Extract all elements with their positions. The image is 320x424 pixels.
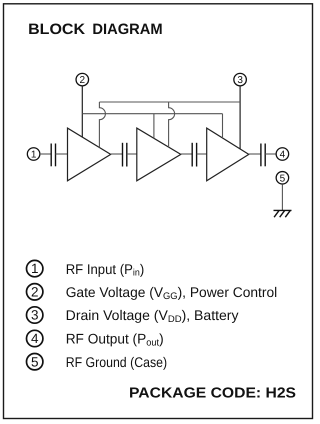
node 2 terminal circle xyxy=(76,73,89,86)
svg-text:3: 3 xyxy=(31,308,39,323)
node 4 terminal circle xyxy=(276,148,289,161)
node 3 terminal circle xyxy=(234,73,247,86)
svg-text:3: 3 xyxy=(237,75,243,86)
node 5 terminal circle xyxy=(276,172,289,185)
svg-text:4: 4 xyxy=(31,331,39,346)
svg-text:BLOCK: BLOCK xyxy=(28,21,85,38)
svg-text:DIAGRAM: DIAGRAM xyxy=(92,21,162,38)
wire C3 to amp3 xyxy=(197,153,207,155)
capacitor C2 xyxy=(123,143,127,167)
gate bus wire xyxy=(82,113,222,115)
wire amp1 to C2 xyxy=(111,153,123,155)
amplifier stage 1 xyxy=(68,128,111,181)
svg-text:PACKAGE CODE: H2S: PACKAGE CODE: H2S xyxy=(129,386,296,402)
wire C4 to node 4 xyxy=(265,153,276,155)
wire gate tap to amp3 xyxy=(222,114,224,138)
svg-text:2: 2 xyxy=(80,75,86,86)
amplifier stage 2 xyxy=(137,128,181,181)
wire node5 to ground xyxy=(281,185,283,211)
wire drain tap to amp2 with hop over gate bus xyxy=(169,102,175,147)
wire gate tap to amp2 xyxy=(153,114,155,139)
capacitor C4 xyxy=(261,144,265,167)
node 1 terminal circle xyxy=(27,148,40,161)
svg-text:5: 5 xyxy=(280,173,286,184)
capacitor C3 xyxy=(192,143,196,167)
svg-text:RF Input (Pin): RF Input (Pin) xyxy=(66,261,145,279)
svg-text:Drain Voltage (VDD), Battery: Drain Voltage (VDD), Battery xyxy=(66,307,239,325)
wire C2 to amp2 xyxy=(127,153,137,155)
wire amp3 to C4 xyxy=(249,153,261,155)
legend node 2 xyxy=(27,284,43,300)
capacitor C1 xyxy=(51,144,55,167)
svg-text:4: 4 xyxy=(280,150,286,161)
legend node 3 xyxy=(27,307,43,323)
svg-text:1: 1 xyxy=(31,261,39,276)
svg-text:1: 1 xyxy=(31,150,37,161)
drain bus wire xyxy=(99,101,240,103)
wire input to C1 xyxy=(40,153,51,155)
ground (case) symbol xyxy=(274,210,292,217)
amplifier stage 3 xyxy=(207,128,249,181)
wire C1 to amp1 xyxy=(56,153,68,155)
legend node 1 xyxy=(27,260,43,276)
wire node3 stem to amp3 drain xyxy=(239,86,241,149)
wire node2 stem to amp1 gate xyxy=(81,86,83,137)
legend node 4 xyxy=(27,330,43,346)
wire drain tap to amp1 with hop over gate bus xyxy=(99,102,105,148)
svg-text:2: 2 xyxy=(31,284,39,299)
svg-text:5: 5 xyxy=(31,354,39,369)
wire amp2 to C3 xyxy=(181,153,192,155)
svg-text:RF Ground (Case): RF Ground (Case) xyxy=(66,354,167,370)
legend node 5 xyxy=(27,354,43,370)
